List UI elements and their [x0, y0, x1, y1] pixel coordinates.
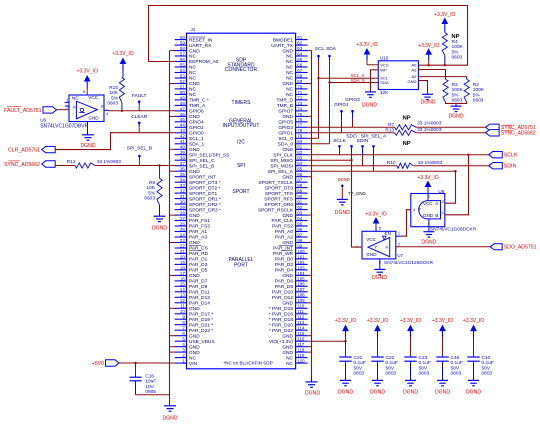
svg-text:J1: J1: [191, 27, 196, 32]
svg-text:PAR_D3: PAR_D3: [189, 262, 208, 268]
svg-text:1: 1: [442, 210, 444, 215]
svg-text:SPORT_RFS: SPORT_RFS: [264, 196, 293, 202]
svg-text:GPIO1: GPIO1: [334, 102, 349, 108]
svg-text:51: 51: [180, 84, 185, 89]
svg-text:PAR_D4: PAR_D4: [275, 268, 294, 274]
svg-text:10K: 10K: [146, 185, 155, 191]
J1 pin 77 GPIO3 (right): [296, 126, 308, 128]
svg-text:34: 34: [180, 178, 185, 183]
svg-text:DGND: DGND: [421, 240, 436, 246]
J1 pin 1 VIN (left): [175, 362, 187, 364]
svg-text:10K: 10K: [109, 90, 118, 96]
svg-text:C22: C22: [386, 355, 395, 361]
J1 pin 79 SCL_0 (right): [296, 137, 308, 139]
svg-text:100K: 100K: [452, 44, 464, 50]
J1 pin 36 GND (left): [175, 170, 187, 172]
svg-text:NC: NC: [286, 65, 293, 71]
J1 pin 46 GND (left): [175, 115, 187, 117]
svg-text:120: 120: [297, 359, 305, 364]
svg-text:5%: 5%: [148, 190, 156, 196]
svg-text:99: 99: [297, 243, 302, 248]
svg-text:GND: GND: [282, 301, 293, 307]
svg-text:75: 75: [297, 112, 302, 117]
resistor R10 33ohm: [397, 163, 413, 168]
J1 pin 81 GND (right): [296, 148, 308, 150]
J1 pin 39 SPI_SEL1/SPI_SS (left): [175, 154, 187, 156]
svg-text:114: 114: [297, 326, 305, 331]
svg-text:14: 14: [180, 287, 185, 292]
J1 pin 92 SPORT_RSCLK (right): [296, 209, 308, 211]
svg-text:GND: GND: [282, 350, 293, 356]
svg-text:GND: GND: [282, 48, 293, 54]
svg-text:PAR_D23 *: PAR_D23 *: [189, 328, 213, 334]
U6 pin 4 output stub: [104, 109, 109, 111]
svg-text:NC: NC: [189, 70, 196, 76]
svg-text:U10: U10: [380, 55, 389, 60]
net label SDIN: [362, 146, 364, 155]
J1 pin 90 SPORT_RFS (right): [296, 198, 308, 200]
svg-text:36: 36: [180, 167, 185, 172]
wire CLEAR net: [55, 133, 174, 150]
svg-text:56: 56: [180, 57, 185, 62]
J1 pin 43 GPIO0 (left): [175, 132, 187, 134]
J1 pin 56 EEPROM_A0 (left): [175, 61, 187, 63]
J1 pin 72 TMR_D (right): [296, 99, 308, 101]
J1 pin 83 SPI_MISO (right): [296, 159, 308, 161]
svg-text:GND: GND: [282, 147, 293, 153]
J1 pin 2 NC (left): [175, 357, 187, 359]
J1 pin 51 NC (left): [175, 88, 187, 90]
power +3.3V_IO tap on A0 wire: [425, 48, 432, 55]
svg-text:62: 62: [297, 41, 302, 46]
svg-text:C16: C16: [145, 374, 154, 380]
svg-text:GND: GND: [366, 252, 377, 257]
J1 pin 88 SPORT_DT0 (right): [296, 187, 308, 189]
svg-text:87: 87: [297, 178, 302, 183]
svg-text:NC: NC: [189, 76, 196, 82]
U6 pin 2 stub: [65, 105, 69, 107]
svg-text:50: 50: [180, 90, 185, 95]
svg-text:106: 106: [297, 282, 305, 287]
svg-text:50V: 50V: [419, 365, 428, 371]
svg-text:12: 12: [180, 298, 185, 303]
svg-text:C10: C10: [482, 355, 491, 361]
svg-text:SPORT_DR2 *: SPORT_DR2 *: [189, 202, 221, 208]
svg-text:41: 41: [180, 139, 185, 144]
J1 pin 61 BMODE1 (right): [296, 39, 308, 41]
svg-text:20: 20: [180, 254, 185, 259]
svg-text:104: 104: [297, 271, 305, 276]
svg-text:69: 69: [297, 79, 302, 84]
svg-text:85: 85: [297, 167, 302, 172]
svg-text:82: 82: [297, 150, 302, 155]
J1 pin 64 NC (right): [296, 55, 308, 57]
J1 pin 42 SCL_1 (left): [175, 137, 187, 139]
svg-text:0.1uF: 0.1uF: [386, 360, 398, 366]
svg-text:GPIO3: GPIO3: [345, 97, 360, 103]
capacitor C22 0.1uF with +3.3V_IO and DGND: [374, 325, 381, 332]
svg-text:PAR_A1: PAR_A1: [189, 229, 207, 235]
J1 pin 112 PAR_D18 (right): [296, 318, 308, 320]
svg-text:15: 15: [180, 282, 185, 287]
J1 pin 98 GND (right): [296, 242, 308, 244]
svg-text:0603: 0603: [473, 98, 484, 104]
svg-text:76: 76: [297, 117, 302, 122]
resistor R7 33ohm NP: [395, 125, 416, 130]
svg-text:94: 94: [297, 216, 302, 221]
svg-text:61: 61: [297, 35, 302, 40]
J1 pin 19 PAR_D3 (left): [175, 263, 187, 265]
J1 pin 59 UART_RX (left): [175, 44, 187, 46]
J1 pin 30 SPORT_DR2 (left): [175, 203, 187, 205]
svg-text:115: 115: [297, 331, 305, 336]
svg-text:1: 1: [398, 231, 400, 236]
svg-text:0603: 0603: [482, 371, 493, 377]
svg-text:GND: GND: [282, 344, 293, 350]
svg-text:* PAR_D20: * PAR_D20: [269, 322, 294, 328]
svg-text:32: 32: [180, 189, 185, 194]
svg-text:50V: 50V: [482, 365, 491, 371]
J1 pin 49 TMR_C (left): [175, 99, 187, 101]
svg-text:SPI_SEL1/SPI_SS: SPI_SEL1/SPI_SS: [189, 152, 229, 158]
svg-text:EEPROM_A0: EEPROM_A0: [189, 59, 219, 65]
svg-text:GND: GND: [282, 174, 293, 180]
svg-text:NC: NC: [286, 70, 293, 76]
svg-text:5: 5: [83, 89, 85, 94]
svg-text:SPORT_INT: SPORT_INT: [189, 174, 216, 180]
svg-text:1: 1: [66, 98, 68, 103]
port SDIN: [489, 163, 503, 169]
svg-text:GND: GND: [408, 79, 417, 84]
J1 pin 115 GND (right): [296, 335, 308, 337]
J1 pin 17 GND (left): [175, 274, 187, 276]
J1 pin 45 GPIO4 (left): [175, 121, 187, 123]
resistor R13 33ohm NP: [395, 130, 416, 135]
connector J1 body: [187, 33, 296, 369]
svg-text:65: 65: [297, 57, 302, 62]
svg-text:17: 17: [180, 271, 185, 276]
svg-text:SDA_0: SDA_0: [278, 142, 294, 148]
svg-text:A1: A1: [411, 67, 417, 72]
J1 pin 8 PAR_D21 (left): [175, 324, 187, 326]
svg-text:DGND: DGND: [466, 389, 481, 395]
svg-text:46: 46: [180, 112, 185, 117]
svg-text:5%: 5%: [452, 92, 460, 98]
svg-text:80: 80: [297, 139, 302, 144]
J1 pin 31 SPORT_DR1 (left): [175, 198, 187, 200]
J1 pin 113 PAR_D20 (right): [296, 324, 308, 326]
svg-text:GND: GND: [282, 273, 293, 279]
svg-text:NC: NC: [286, 87, 293, 93]
J1 pin 58 GND (left): [175, 50, 187, 52]
svg-text:GPIO4: GPIO4: [189, 120, 204, 126]
svg-text:+3.3V_IO: +3.3V_IO: [365, 211, 386, 217]
svg-text:DGND: DGND: [338, 177, 350, 182]
svg-text:72: 72: [297, 95, 302, 100]
svg-text:DGND: DGND: [435, 389, 450, 395]
svg-text:NC: NC: [189, 355, 196, 361]
svg-text:U6: U6: [40, 117, 46, 122]
svg-text:Y: Y: [374, 245, 377, 250]
J1 pin 22 PAR_CS (left): [175, 247, 187, 249]
svg-text:SPI_SEL_A: SPI_SEL_A: [361, 133, 387, 139]
svg-text:SPORT_RSCLK: SPORT_RSCLK: [258, 207, 294, 213]
svg-text:R12: R12: [67, 159, 76, 165]
J1 pin 62 UART_TX (right): [296, 44, 308, 46]
svg-text:GND: GND: [189, 147, 200, 153]
svg-text:88: 88: [297, 183, 302, 188]
svg-text:109: 109: [297, 298, 305, 303]
J1 pin 60 RESET_IN (left): [175, 39, 187, 41]
svg-text:108: 108: [297, 293, 305, 298]
U7 GND stem: [379, 259, 381, 270]
svg-text:117: 117: [297, 342, 305, 347]
svg-text:118: 118: [297, 348, 305, 353]
port SYNC_AD5662 right: [486, 130, 500, 136]
wire GPIO1 row to R13: [308, 132, 395, 134]
svg-text:* PAR_D16: * PAR_D16: [269, 312, 294, 318]
svg-text:PORT: PORT: [234, 263, 248, 269]
svg-text:35: 35: [180, 172, 185, 177]
svg-text:100: 100: [297, 249, 305, 254]
power +3.3V_IO above U6: [84, 75, 91, 82]
svg-text:116: 116: [297, 337, 305, 342]
svg-text:UART_TX: UART_TX: [271, 43, 294, 49]
J1 pin 5 USB_VBUS (left): [175, 340, 187, 342]
svg-text:+3.3V_IO: +3.3V_IO: [356, 42, 377, 48]
svg-text:NC: NC: [189, 92, 196, 98]
U7 EN stub: [396, 235, 401, 237]
svg-text:92: 92: [297, 205, 302, 210]
ground DGND right bus: [311, 378, 313, 382]
ground DGND at U10.GND: [422, 93, 433, 95]
svg-text:SCL_1: SCL_1: [189, 136, 204, 142]
svg-text:C21: C21: [354, 355, 363, 361]
svg-text:31: 31: [180, 194, 185, 199]
svg-text:26: 26: [180, 221, 185, 226]
svg-text:SDA_0: SDA_0: [351, 78, 365, 83]
wire +5V0 to VIN: [119, 362, 175, 364]
J1 pin 55 NC (left): [175, 66, 187, 68]
svg-text:GND: GND: [282, 333, 293, 339]
svg-text:19: 19: [180, 260, 185, 265]
resistor R2 100K: [466, 77, 468, 80]
svg-text:GND: GND: [189, 169, 200, 175]
svg-text:FAULT_AD5751: FAULT_AD5751: [4, 108, 42, 114]
svg-text:11: 11: [180, 304, 185, 309]
J1 pin 91 SPORT_DR0 (right): [296, 203, 308, 205]
svg-text:CLEAR: CLEAR: [131, 114, 148, 120]
svg-text:SPI_SEL_A: SPI_SEL_A: [268, 169, 294, 175]
net label SPI_SEL_B: [138, 156, 140, 160]
resistor R3 100K: [445, 70, 447, 80]
svg-text:TMR_C *: TMR_C *: [189, 98, 209, 104]
svg-text:+3.3V_IO: +3.3V_IO: [77, 68, 98, 74]
J1 pin 52 GND (left): [175, 83, 187, 85]
svg-text:90: 90: [297, 194, 302, 199]
svg-text:78: 78: [297, 128, 302, 133]
svg-text:86: 86: [297, 172, 302, 177]
J1 pin 20 PAR_D1 (left): [175, 258, 187, 260]
svg-text:2: 2: [442, 199, 444, 204]
ground DGND under U7: [374, 268, 385, 270]
resistor R12 33ohm: [75, 163, 95, 168]
ground DGND left bus: [164, 405, 176, 407]
svg-text:NC: NC: [189, 54, 196, 60]
J1 pin 38 SPI_SEL_C (left): [175, 159, 187, 161]
J1 pin 85 SPI_SEL_A (right): [296, 170, 308, 172]
svg-text:* PAR_D18: * PAR_D18: [269, 317, 294, 323]
svg-text:+3.3V_IO: +3.3V_IO: [432, 318, 453, 324]
svg-text:DGND: DGND: [163, 416, 178, 422]
wire R3-R2 bottoms: [446, 102, 467, 103]
ground DGND under U6: [82, 134, 94, 136]
J1 pin 37 SPI_SEL_B (left): [175, 165, 187, 167]
svg-text:0603: 0603: [452, 55, 463, 61]
svg-text:33 1%0603: 33 1%0603: [97, 159, 122, 165]
svg-text:52: 52: [180, 79, 185, 84]
svg-text:67: 67: [297, 68, 302, 73]
svg-text:PAR_D21 *: PAR_D21 *: [189, 322, 213, 328]
svg-text:SPORT_TSCLK: SPORT_TSCLK: [258, 180, 293, 186]
svg-text:+3.3V_IO: +3.3V_IO: [463, 318, 484, 324]
svg-text:TMR_A: TMR_A: [189, 103, 206, 109]
wire R10 to SDIN port: [413, 165, 489, 167]
svg-text:PAR_D12: PAR_D12: [272, 295, 293, 301]
J1 pin 103 PAR_D4 (right): [296, 269, 308, 271]
svg-text:0603: 0603: [107, 101, 118, 107]
svg-text:SPORT_DR0: SPORT_DR0: [264, 202, 293, 208]
J1 pin 16 PAR_D7 (left): [175, 280, 187, 282]
J1 pin 65 NC (right): [296, 61, 308, 63]
svg-text:74: 74: [297, 106, 302, 111]
svg-text:Y: Y: [418, 207, 421, 212]
svg-text:0603: 0603: [354, 371, 365, 377]
port SCLK: [489, 152, 503, 158]
svg-text:+3.3V_IO: +3.3V_IO: [400, 318, 421, 324]
svg-text:C46: C46: [451, 355, 460, 361]
wire SPI_SEL_A row: [308, 170, 456, 172]
svg-text:PAR_WR: PAR_WR: [273, 251, 294, 257]
wire SCL_0 to U10.SCL: [319, 77, 379, 79]
port SYNC_AD5751 right: [486, 124, 500, 130]
svg-text:22: 22: [180, 243, 185, 248]
svg-text:SPI_CLK: SPI_CLK: [273, 152, 294, 158]
svg-text:CLR_AD5751: CLR_AD5751: [8, 148, 40, 154]
svg-text:33 1%0603: 33 1%0603: [417, 121, 442, 127]
svg-text:SPI_MOSI: SPI_MOSI: [270, 163, 293, 169]
svg-text:GND: GND: [189, 114, 200, 120]
J1 pin 53 NC (left): [175, 77, 187, 79]
J1 pin 13 PAR_D13 (left): [175, 296, 187, 298]
capacitor C16 10uF: [135, 363, 137, 377]
svg-text:37: 37: [180, 161, 185, 166]
J1 pin 44 GPIO2 (left): [175, 126, 187, 128]
svg-text:70: 70: [297, 84, 302, 89]
U7 Y wire to SDO net: [352, 160, 363, 247]
net label SDO: [351, 146, 353, 152]
svg-text:SDIN: SDIN: [504, 164, 517, 170]
svg-text:66: 66: [297, 62, 302, 67]
wire R12 to pin 36 SPI_SEL_B: [95, 165, 175, 167]
svg-text:0603: 0603: [144, 196, 155, 202]
svg-text:GND: GND: [282, 114, 293, 120]
svg-text:GND: GND: [189, 273, 200, 279]
svg-text:PAR_D0: PAR_D0: [275, 257, 294, 263]
net label GPIO3: [352, 111, 354, 118]
svg-text:NC: NC: [189, 65, 196, 71]
svg-text:NC: NC: [286, 54, 293, 60]
svg-text:2: 2: [398, 242, 400, 247]
svg-text:PAR_D8: PAR_D8: [275, 284, 294, 290]
svg-text:54: 54: [180, 68, 185, 73]
J1 pin 34 SPORT_DT3 (left): [175, 181, 187, 183]
svg-text:100K: 100K: [473, 87, 485, 93]
svg-text:U7: U7: [397, 253, 403, 258]
wire GPIO3 row to R7: [308, 126, 395, 128]
ground DGND at U10.WP: [365, 91, 376, 93]
svg-text:GND: GND: [189, 344, 200, 350]
ground DGND under R2R3: [451, 105, 462, 107]
svg-text:55: 55: [180, 62, 185, 67]
svg-text:U8: U8: [438, 189, 444, 194]
junction C16 tap: [134, 362, 136, 364]
wire U10.A2 to R2: [418, 76, 466, 78]
J1 pin 15 PAR_D9 (left): [175, 285, 187, 287]
svg-text:SDA: SDA: [326, 46, 337, 52]
svg-text:PAR_A3: PAR_A3: [189, 235, 207, 241]
wire U10.GND to DGND: [418, 81, 427, 95]
J1 pin 101 PAR_D0 (right): [296, 258, 308, 260]
J1 pin 35 SPORT_INT (left): [175, 176, 187, 178]
U6 GND stem: [87, 122, 89, 135]
svg-text:PAR_D19 *: PAR_D19 *: [189, 317, 213, 323]
wire U10.WP to DGND: [371, 70, 379, 92]
J1 pin 7 PAR_D23 (left): [175, 329, 187, 331]
svg-text:SPI_SEL_B: SPI_SEL_B: [189, 163, 214, 169]
svg-text:+3.3V_IO: +3.3V_IO: [434, 12, 455, 18]
wire C16 to GND bus: [136, 394, 170, 396]
svg-text:+3.3V_IO: +3.3V_IO: [418, 43, 439, 49]
svg-text:50V: 50V: [451, 365, 460, 371]
svg-text:PAR_D6: PAR_D6: [275, 279, 294, 285]
capacitor C46 0.1uF with +3.3V_IO and DGND: [439, 325, 446, 332]
junction R15-FAULT: [121, 110, 123, 112]
buffer U7 body: [362, 231, 396, 259]
power +3.3V_IO above U8: [425, 181, 432, 188]
svg-text:105: 105: [297, 276, 305, 281]
resistor R15 10K: [119, 78, 124, 103]
svg-text:98: 98: [297, 238, 302, 243]
svg-text:SN74LVC1G08DCKR: SN74LVC1G08DCKR: [430, 227, 477, 233]
svg-text:0603: 0603: [386, 371, 397, 377]
svg-text:DGND: DGND: [305, 390, 320, 396]
svg-text:NP: NP: [403, 141, 411, 147]
svg-text:PAR_D17 *: PAR_D17 *: [189, 312, 213, 318]
J1 pin 40 GND (left): [175, 148, 187, 150]
svg-text:VIN: VIN: [189, 361, 198, 367]
net label GPIO1: [341, 111, 343, 121]
svg-text:111: 111: [297, 309, 304, 314]
svg-text:SPI: SPI: [237, 163, 245, 169]
svg-text:DGND: DGND: [403, 389, 418, 395]
J1 pin 27 PAR_FS1 (left): [175, 220, 187, 222]
svg-text:58: 58: [180, 46, 185, 51]
J1 pin 69 GND (right): [296, 83, 308, 85]
svg-text:79: 79: [297, 134, 302, 139]
svg-text:PAR_D14: PAR_D14: [189, 301, 210, 307]
svg-text:96: 96: [297, 227, 302, 232]
